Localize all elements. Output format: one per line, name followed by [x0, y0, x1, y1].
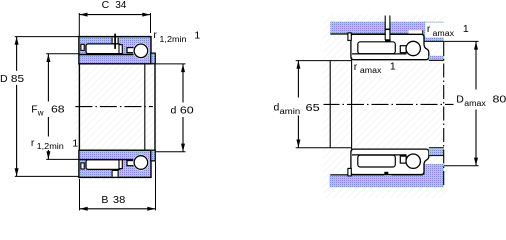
svg-text:r: r — [153, 29, 157, 41]
bottom section ball — [133, 155, 149, 171]
bottom section lube notch — [112, 171, 118, 177]
bearing top raceway line — [352, 53, 407, 55]
dimension Fw extension lines — [46, 53, 79, 55]
svg-text:1: 1 — [390, 60, 396, 72]
svg-text:60: 60 — [180, 105, 194, 117]
bore right edge line — [154, 64, 156, 150]
svg-text:85: 85 — [11, 73, 24, 85]
left view hatch background — [75, 33, 158, 181]
top section body (outer+inner ring blue) — [79, 37, 151, 64]
bottom section inner-ring right block — [151, 150, 156, 161]
housing top bore line — [330, 33, 384, 35]
svg-text:65: 65 — [306, 102, 320, 114]
bearing bottom lube hole — [384, 172, 388, 175]
top section needle rollers — [86, 44, 121, 54]
bottom section cage square — [119, 160, 122, 169]
dimension D label — [0, 71, 26, 85]
dimension d extension lines — [156, 63, 186, 65]
svg-text:1: 1 — [463, 23, 469, 35]
bearing bottom rollers — [358, 155, 396, 167]
bottom section cage square B — [127, 161, 134, 166]
housing bottom — [330, 164, 444, 187]
svg-text:B: B — [101, 194, 108, 206]
bearing top rollers — [358, 42, 396, 54]
dimension d label — [168, 103, 197, 118]
svg-text:38: 38 — [113, 194, 126, 206]
top section ball — [133, 43, 149, 59]
bearing top section outline — [351, 34, 429, 59]
svg-text:amax: amax — [433, 29, 455, 38]
svg-text:r: r — [31, 137, 35, 149]
dimension D_amax line — [475, 41, 477, 165]
axis centerline right view — [323, 103, 455, 105]
top section lube notch — [112, 38, 118, 44]
dimension C extension lines — [78, 13, 80, 36]
dimension B line — [80, 208, 156, 210]
bore left edge line — [78, 64, 80, 150]
dimension d_amin label — [272, 98, 324, 116]
svg-text:1: 1 — [194, 29, 200, 41]
top section cage square B — [127, 48, 134, 53]
dimension D_amax extension lines — [424, 40, 479, 42]
bottom section raceway line — [79, 159, 134, 161]
svg-text:1: 1 — [72, 138, 78, 150]
shaft shoulder strip top right — [429, 56, 444, 61]
housing top shoulder face — [422, 30, 424, 41]
bearing bottom left lip — [348, 168, 351, 176]
svg-text:D: D — [456, 94, 464, 106]
shaft shoulder surface bottom — [296, 147, 352, 149]
svg-text:C: C — [102, 0, 110, 11]
housing bottom bore line — [330, 174, 384, 176]
bottom section left cage piece — [81, 163, 84, 169]
bearing top left lip — [348, 33, 351, 41]
top section left cage piece — [81, 44, 84, 50]
bearing top ball — [406, 41, 420, 55]
dimension D extension lines — [15, 36, 79, 38]
bottom section needle rollers — [86, 160, 121, 170]
svg-text:amin: amin — [280, 107, 301, 116]
top section inner-ring right block — [151, 53, 156, 64]
top section lube hole line — [114, 34, 116, 49]
inner ring split line — [144, 64, 146, 150]
dimension d line — [182, 64, 184, 152]
top section raceway line — [79, 54, 134, 56]
svg-text:D: D — [0, 73, 8, 85]
svg-text:amax: amax — [464, 99, 486, 108]
svg-text:F: F — [31, 103, 37, 115]
dimension B extension lines — [79, 179, 81, 211]
r_amax lower annotation — [353, 62, 396, 75]
bearing bottom cage square — [400, 156, 406, 163]
shaft shoulder face line — [351, 57, 353, 151]
housing top — [330, 22, 444, 42]
svg-text:1,2min: 1,2min — [37, 142, 64, 151]
shaft end face line — [329, 61, 331, 148]
r_amax upper annotation — [425, 23, 457, 38]
radial centerline right view — [443, 42, 445, 187]
svg-text:r: r — [354, 61, 358, 73]
dimension Fw label — [29, 102, 66, 118]
housing bottom shoulder face — [423, 164, 425, 175]
dimension D line — [16, 37, 18, 177]
axis centerline left view — [75, 106, 152, 108]
dimension d_amin line — [297, 61, 299, 148]
bearing bottom raceway line — [352, 154, 407, 156]
svg-text:34: 34 — [115, 0, 126, 11]
top section cage square — [119, 45, 122, 54]
bearing bottom section outline — [351, 149, 429, 174]
right view hatch background — [323, 15, 445, 198]
svg-text:68: 68 — [51, 103, 65, 115]
shaft shoulder strip bottom right — [429, 149, 444, 156]
bearing bottom ball — [406, 154, 420, 168]
svg-text:amax: amax — [360, 66, 382, 75]
svg-text:r: r — [427, 23, 431, 35]
svg-text:d: d — [171, 105, 177, 117]
svg-text:80: 80 — [493, 94, 506, 106]
dimension C line — [79, 14, 150, 16]
dimension Fw line — [47, 54, 49, 160]
bottom section body — [79, 150, 151, 177]
bearing top lube hole — [386, 16, 390, 41]
dimension D_amax label — [454, 90, 506, 110]
shaft shoulder surface top — [296, 60, 352, 62]
svg-text:1,2min: 1,2min — [159, 35, 186, 44]
r 1,2min lower annotation — [29, 137, 79, 151]
svg-text:w: w — [37, 108, 44, 117]
bearing top cage square — [400, 46, 406, 53]
